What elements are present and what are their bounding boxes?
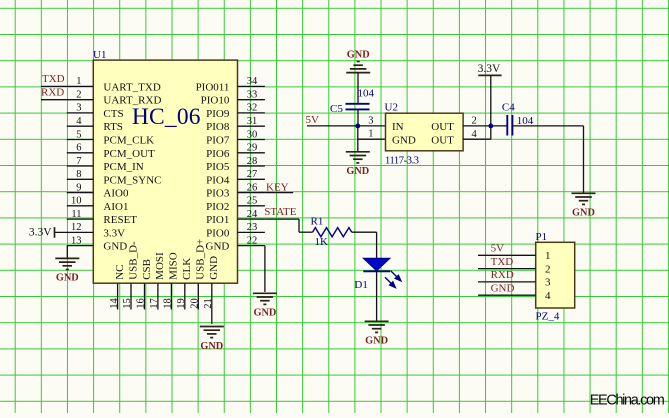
ground at U1 pin 13 [55,257,79,259]
U1 pin 9 wire [67,192,94,194]
svg-text:13: 13 [71,235,82,246]
svg-text:PCM_OUT: PCM_OUT [103,148,155,160]
svg-text:33: 33 [247,90,257,101]
U1 pin 5 wire [67,139,94,141]
U1 pin 23 wire [238,231,265,233]
svg-text:EEChina.com: EEChina.com [590,393,665,409]
svg-text:USB_D-: USB_D- [127,241,139,280]
svg-text:16: 16 [136,298,147,309]
U1 pin 28 wire [238,165,265,167]
svg-text:RTS: RTS [103,121,123,133]
regulator U2 body [386,113,464,151]
connector P1 body [536,242,575,308]
wire R1 to D1 [352,231,377,233]
svg-text:1: 1 [76,76,81,87]
svg-text:15: 15 [122,298,133,309]
U1 pin 19 wire [184,283,186,309]
svg-text:3.3V: 3.3V [103,227,125,239]
U1 pin 1 wire [41,85,93,87]
svg-text:UART_RXD: UART_RXD [103,95,161,107]
svg-text:28: 28 [247,156,257,167]
svg-text:OUT: OUT [431,121,454,133]
wire U2 pin 2 to C4 [463,125,507,127]
svg-text:RXD: RXD [41,86,64,98]
junction dot [488,124,493,129]
svg-text:1K: 1K [315,236,329,248]
svg-text:GND: GND [491,283,515,295]
wire 5V to U2 pin 3 [307,125,386,127]
svg-text:14: 14 [109,297,120,308]
svg-text:TXD: TXD [491,256,514,268]
svg-text:GND: GND [365,336,388,347]
svg-text:PIO1: PIO1 [206,214,229,226]
ground (inverted) above C5 [346,72,370,74]
wire junction down to U2 pin 1 [357,126,359,151]
svg-text:17: 17 [149,298,160,309]
wire C5 to 5V rail [357,109,359,126]
svg-text:104: 104 [358,87,375,99]
svg-text:PCM_CLK: PCM_CLK [103,135,154,147]
svg-text:PIO0: PIO0 [206,227,230,239]
svg-text:UART_TXD: UART_TXD [103,81,160,93]
U1 pin 15 wire [130,283,132,309]
U1 pin 6 wire [67,152,94,154]
svg-text:20: 20 [190,298,201,309]
U1 pin 21 wire [211,283,213,324]
svg-text:4: 4 [472,129,478,140]
P1 pin 3 wire [478,281,536,283]
U1 pin 7 wire [67,165,94,167]
svg-text:PIO9: PIO9 [206,108,230,120]
svg-text:CLK: CLK [181,258,193,280]
svg-text:8: 8 [76,169,81,180]
svg-text:3: 3 [76,103,81,114]
svg-text:GND: GND [206,241,230,253]
svg-text:KEY: KEY [266,181,289,193]
wire pin 24 STATE to R1 [265,218,299,220]
svg-text:104: 104 [517,115,534,127]
wire 3.3V down across pin2 to pin4 [490,75,492,139]
svg-text:GND: GND [200,341,223,352]
svg-text:30: 30 [247,129,257,140]
svg-text:7: 7 [76,156,81,167]
svg-text:PCM_IN: PCM_IN [103,161,143,173]
U1 pin 26 wire [238,192,265,194]
svg-text:23: 23 [247,222,257,233]
U1 pin 3 wire [67,112,94,114]
svg-text:NC: NC [114,265,126,280]
svg-text:9: 9 [76,182,81,193]
svg-text:PIO10: PIO10 [201,95,230,107]
ground at U2 pin 1 [346,151,370,153]
U1 pin 31 wire [238,125,265,127]
U1 pin 30 wire [238,139,265,141]
svg-text:PIO2: PIO2 [206,201,229,213]
svg-text:AIO1: AIO1 [103,201,128,213]
svg-text:P1: P1 [536,231,548,243]
U1 pin 11 wire [67,218,94,220]
U1 pin 27 wire [238,178,265,180]
svg-text:GND: GND [346,166,369,177]
U1 pin 10 wire [67,205,94,207]
wire pin 22 down to ground [264,246,266,292]
U1 pin 20 wire [197,283,199,309]
capacitor C5 [346,103,370,105]
svg-text:2: 2 [472,115,477,126]
U1 pin 32 wire [238,112,265,114]
svg-text:1: 1 [545,250,551,262]
svg-text:AIO0: AIO0 [103,188,129,200]
svg-text:11: 11 [71,209,81,220]
U1 pin 22 wire [238,245,265,247]
resistor R1 [313,228,352,237]
svg-text:OUT: OUT [431,134,454,146]
svg-text:22: 22 [247,235,257,246]
svg-text:27: 27 [247,169,257,180]
svg-text:PIO3: PIO3 [206,188,230,200]
svg-text:3.3V: 3.3V [478,63,501,75]
svg-text:18: 18 [163,298,174,309]
op-amp U1 HC_06 module body [93,60,237,283]
svg-text:PIO7: PIO7 [206,135,230,147]
P1 pin 4 wire [478,294,536,296]
svg-text:CTS: CTS [103,108,123,120]
ground at U1 pin 21 [200,326,224,328]
svg-text:GND: GND [392,134,416,146]
LED D1 [363,258,390,271]
svg-text:U2: U2 [385,101,398,113]
svg-text:24: 24 [247,209,258,220]
ground at U1 pin 22 [253,292,277,294]
svg-text:CSB: CSB [141,259,153,280]
power port 3.3V at pin 12 [54,227,56,238]
wire C4 to ground drop [512,125,583,127]
wire U2 pin 4 to 3.3V drop [463,138,491,140]
svg-text:1: 1 [368,129,373,140]
svg-text:C5: C5 [330,103,343,115]
svg-text:4: 4 [545,290,551,302]
svg-text:2: 2 [545,263,551,275]
U1 pin 17 wire [157,283,159,309]
svg-text:32: 32 [247,103,257,114]
svg-text:21: 21 [203,298,214,309]
svg-text:2: 2 [76,90,81,101]
svg-text:4: 4 [76,116,82,127]
svg-text:TXD: TXD [42,73,65,85]
svg-text:C4: C4 [502,102,515,114]
U1 pin 29 wire [238,152,265,154]
svg-text:5: 5 [76,129,81,140]
svg-text:25: 25 [247,196,257,207]
capacitor C4 [506,115,508,136]
svg-text:19: 19 [176,298,187,309]
svg-text:RXD: RXD [491,269,514,281]
svg-text:31: 31 [247,116,257,127]
svg-text:6: 6 [76,143,81,154]
svg-text:USB_D+: USB_D+ [195,239,207,280]
ground right of C4 [572,192,596,194]
LED arrows [385,271,401,288]
svg-text:3: 3 [545,277,551,289]
svg-text:MOSI: MOSI [154,252,166,280]
svg-text:29: 29 [247,143,257,154]
U1 pin 4 wire [67,125,94,127]
svg-text:5V: 5V [491,243,505,255]
ground below D1 [365,320,389,322]
U1 pin 25 wire [238,205,265,207]
P1 pin 2 wire [478,268,536,270]
U1 pin 14 wire [117,283,119,309]
svg-text:3.3V: 3.3V [29,227,52,239]
U1 pin 12 wire [55,231,94,233]
U1 pin 24 wire [238,218,265,220]
svg-text:34: 34 [247,76,258,87]
wire ground to C5 [357,73,359,104]
svg-text:26: 26 [247,182,257,193]
svg-text:MISO: MISO [168,252,180,280]
svg-text:GND: GND [572,208,595,219]
svg-text:R1: R1 [311,215,324,227]
wire pin13 to ground [66,246,68,258]
svg-text:D1: D1 [354,279,367,291]
junction dot [355,124,360,129]
svg-text:GND: GND [208,256,220,280]
svg-text:STATE: STATE [264,206,296,218]
svg-text:PZ_4: PZ_4 [536,310,560,322]
svg-text:HC_06: HC_06 [132,104,201,130]
svg-text:U1: U1 [93,49,106,61]
P1 pin 1 wire [478,254,536,256]
U1 pin 13 wire [67,245,94,247]
net label KEY at pin 26 [265,192,293,194]
svg-text:12: 12 [71,222,82,233]
U1 pin 33 wire [238,99,265,101]
wire D1 to ground [376,271,378,320]
svg-text:10: 10 [71,196,82,207]
svg-text:PIO4: PIO4 [206,174,230,186]
svg-text:GND: GND [347,49,370,60]
svg-text:PCM_SYNC: PCM_SYNC [103,174,161,186]
U1 pin 8 wire [67,178,94,180]
U1 pin 2 wire [41,99,93,101]
svg-text:GND: GND [253,308,276,319]
svg-text:PIO6: PIO6 [206,148,230,160]
svg-text:RESET: RESET [103,214,137,226]
U1 pin 34 wire [238,85,265,87]
svg-text:GND: GND [103,241,127,253]
svg-text:PIO011: PIO011 [196,81,230,93]
svg-text:3: 3 [368,115,373,126]
U1 pin 16 wire [144,283,146,309]
svg-text:5V: 5V [306,114,320,126]
svg-text:IN: IN [392,121,404,133]
svg-text:1117-3.3: 1117-3.3 [385,155,419,166]
svg-text:GND: GND [56,273,79,284]
svg-text:PIO8: PIO8 [206,121,230,133]
power port 3.3V top right [478,74,501,76]
svg-text:PIO5: PIO5 [206,161,230,173]
U1 pin 18 wire [170,283,172,309]
